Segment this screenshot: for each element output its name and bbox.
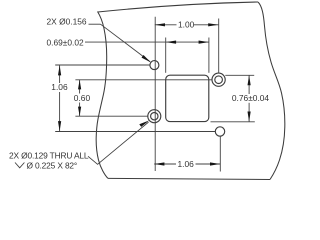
part top edge: [98, 2, 258, 12]
dim 1.06 left line: [59, 65, 61, 83]
hole D: [215, 127, 224, 136]
dim 1.06 bottom right arrow: [210, 162, 220, 165]
ext line B horizontal (0.60 top): [75, 79, 212, 81]
dim 1.00 left arrow: [155, 23, 165, 26]
leader A arrowhead: [142, 55, 151, 62]
dim 1.06 left bottom arrow: [58, 121, 61, 131]
hole B countersunk outer: [212, 73, 225, 86]
ext vertical square left (0.69): [165, 38, 167, 73]
dim 0.76 line: [248, 75, 250, 94]
dim 0.69 right arrow: [199, 41, 209, 44]
svg-text:Ø 0.225 X 82°: Ø 0.225 X 82°: [27, 160, 78, 170]
ext line square bottom right (0.76 bottom): [211, 121, 255, 123]
dim 0.60 line: [79, 80, 81, 94]
dim 1.06 bottom line: [154, 163, 176, 165]
dim 1.06 left top arrow: [58, 65, 61, 75]
leader C arrowhead: [139, 120, 149, 127]
countersink symbol: [15, 163, 24, 168]
square cutout: [166, 75, 209, 121]
hole A: [150, 61, 159, 70]
svg-text:2X Ø0.156: 2X Ø0.156: [47, 17, 87, 27]
part bottom edge: [108, 178, 270, 179]
dim 0.60 top arrow: [78, 80, 81, 90]
leader C line: [88, 122, 149, 164]
part left break line: [96, 12, 108, 179]
ext line C horizontal (0.60 bottom): [75, 115, 147, 117]
ext vertical above B (1.00 right): [218, 19, 220, 74]
svg-text:0.69±0.02: 0.69±0.02: [47, 38, 85, 48]
dim 1.00 right arrow: [208, 23, 218, 26]
dim 1.00 line: [155, 24, 177, 26]
svg-text:2X Ø0.129 THRU ALL: 2X Ø0.129 THRU ALL: [9, 150, 89, 160]
ext vertical below D (1.06 bottom right): [219, 136, 221, 171]
ext line D horizontal (1.06 bottom / left dim): [55, 131, 215, 133]
ext vertical through A and C (1.00 left / 1.06 bottom left): [154, 17, 156, 171]
dim 1.06 bottom left arrow: [154, 162, 164, 165]
dim 0.69 left arrow: [166, 41, 176, 44]
hole C countersunk outer: [148, 110, 161, 123]
hole C inner: [151, 113, 158, 120]
part right break line: [258, 2, 285, 180]
dim 0.76 bottom arrow: [248, 112, 251, 122]
svg-text:1.00: 1.00: [178, 20, 195, 30]
svg-text:1.06: 1.06: [178, 159, 195, 169]
svg-text:0.60: 0.60: [74, 93, 91, 103]
svg-text:0.76±0.04: 0.76±0.04: [232, 93, 270, 103]
hole B inner: [215, 76, 223, 84]
ext line A horizontal (1.06 top): [55, 64, 150, 66]
svg-text:1.06: 1.06: [51, 82, 68, 92]
ext line square top right (0.76 top): [225, 74, 254, 76]
ext vertical square right (0.69): [208, 38, 210, 73]
dim 0.76 top arrow: [248, 75, 251, 85]
dim 0.69 leader+line: [85, 41, 209, 43]
dim 0.60 bottom arrow: [78, 107, 81, 117]
